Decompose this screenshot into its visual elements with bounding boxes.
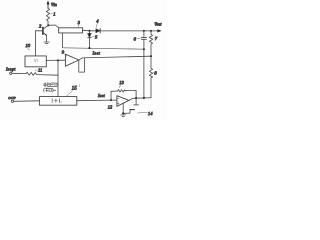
svg-text:6: 6 [134,37,137,42]
svg-text:4: 4 [96,19,99,24]
transistor Q2 [43,26,48,42]
wire loop below buffer output [79,58,85,72]
wire rail B (buffer out to R7 bottom node) [79,56,151,60]
wire node to box 3 [48,25,58,28]
wire box10 to buffer 9 [46,59,65,61]
Chinese caption line1 (stop signal) [44,83,58,87]
ground (under Q2 emitter) [44,42,49,44]
node rail B right end [150,55,152,57]
wire OCP to box15 [14,100,40,103]
svg-text:14: 14 [148,111,153,116]
node battery top [135,97,137,99]
node rail A / D5 [88,47,90,49]
node B (after box 3) [88,30,90,32]
wire box15 to op-amp (Iset lower) [77,99,111,102]
Vout arrow [157,29,161,32]
Chinese caption line2 (off) [44,88,56,92]
svg-text:12: 12 [108,105,113,110]
op-amp output rail [129,98,151,101]
svg-text:8: 8 [154,71,157,76]
svg-text:3: 3 [78,20,81,25]
node plus/gnd [122,112,124,114]
node A (Vin node) [47,24,49,26]
buffer amp 9 [65,54,79,66]
resistor R1 [46,8,49,24]
box 3 [59,28,83,33]
stray mark [78,84,81,87]
svg-text:7: 7 [155,36,158,41]
terminal OCP [11,100,13,102]
feedback wire up [111,91,118,100]
svg-text:Vout: Vout [155,22,163,26]
op-amp input marks [117,99,119,105]
svg-text:1: 1 [53,12,55,17]
svg-text:11: 11 [38,68,42,73]
wire rail A (Iset upper rail) [63,48,144,49]
node rail A right end [143,48,145,50]
node cap6 top [143,30,145,32]
svg-text:Iset: Iset [92,51,101,56]
svg-text:OCP: OCP [8,96,16,100]
wire node to op-amp [111,99,117,101]
label 7 [153,37,155,40]
node R7 top [150,30,152,32]
resistor R11 [26,72,38,75]
label 14 [138,111,148,114]
ground (below op-amp) [121,115,126,117]
label 11 [35,69,37,71]
wire tap down to box 15 [57,60,59,96]
diode D5 [88,31,92,48]
svg-text:Vin: Vin [51,2,58,7]
label 5 [92,35,94,37]
feedback wire down to output rail [135,90,137,98]
node (tap on box10-buffer wire) [57,59,59,61]
wire from box3 bottom down to rail A [62,33,64,48]
wire top rail to Vout [100,30,158,32]
wire Q2 base to box 10 [35,31,43,56]
node op-amp input [110,99,112,101]
box 15 [39,97,76,106]
terminal Isopt [10,72,12,74]
wire R11 to tap vertical [38,74,58,77]
label 8 [153,71,154,73]
battery V14 [123,98,138,113]
svg-text:5: 5 [95,34,98,39]
label 1 [51,12,53,15]
svg-text:Isopt: Isopt [5,66,16,71]
op-amp plus input wire down [122,103,124,113]
svg-text:2: 2 [39,24,42,29]
resistor R7 [149,31,152,56]
Vin supply arrow [47,0,50,8]
box15 inner text [52,99,61,103]
wire Isopt to R11 [12,72,26,74]
box 10 inner text [34,59,38,62]
diode D4 [91,29,101,33]
op-amp U12 [117,96,129,107]
svg-text:10: 10 [25,43,30,48]
wire box3 to node B [83,29,90,32]
box 10 [25,56,46,67]
resistor R13 [118,90,137,93]
wire cap6 chain down [143,49,145,98]
resistor R8 [149,56,152,98]
node cap chain bottom [143,97,145,99]
svg-text:Iset: Iset [97,93,106,98]
capacitor C6 [141,31,146,49]
svg-text:13: 13 [119,80,124,85]
